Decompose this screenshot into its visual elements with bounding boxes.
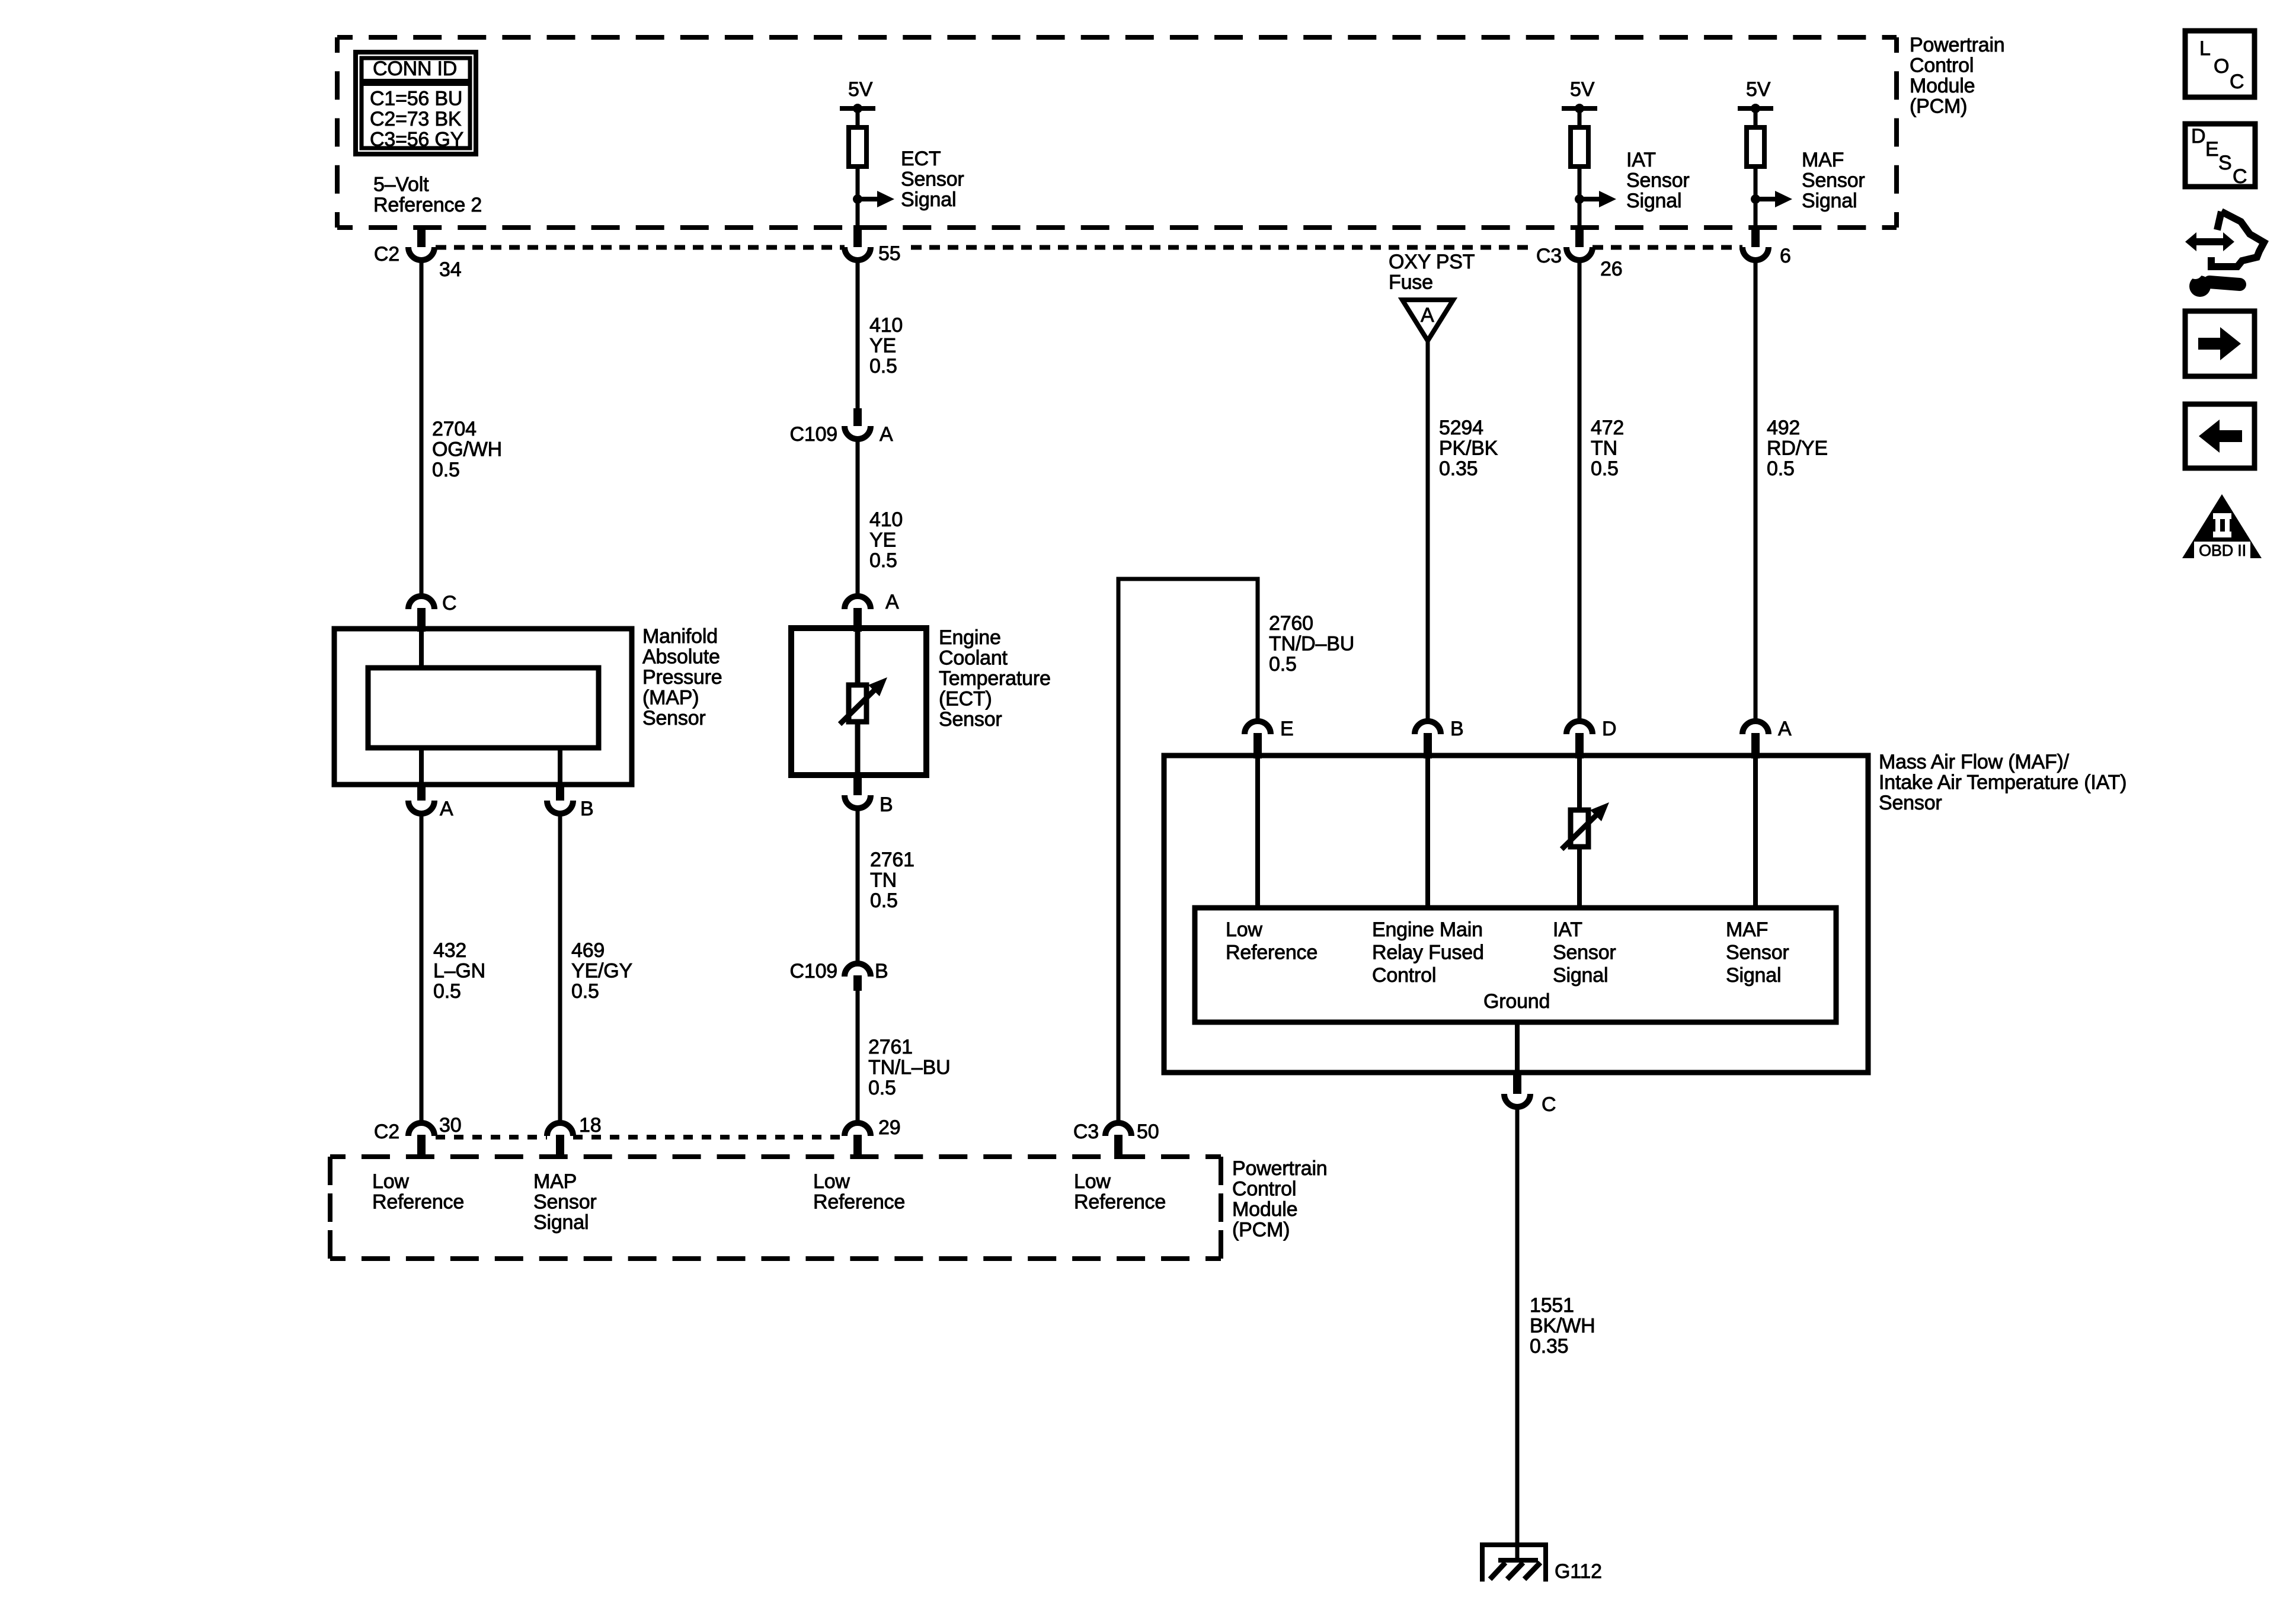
svg-text:E: E: [2205, 138, 2218, 161]
wire ground block to pin C: [1515, 1022, 1520, 1073]
connector A (MAP): [417, 782, 426, 801]
connector pin 29: [845, 1123, 871, 1136]
connector B (MAP): [556, 782, 564, 801]
icon OBD II warning triangle: [2182, 494, 2262, 558]
svg-text:CONN ID: CONN ID: [373, 57, 457, 80]
connector C3 pin 50: [1105, 1123, 1131, 1136]
connector D (MAF/IAT): [1566, 721, 1593, 734]
svg-text:C: C: [442, 592, 456, 614]
svg-text:C109: C109: [790, 423, 837, 446]
connector row dashed link (26 to 6): [1593, 245, 1742, 250]
svg-text:A: A: [880, 423, 893, 446]
MAF/IAT sensor box: [1164, 756, 1868, 1073]
svg-text:D: D: [1602, 718, 1616, 740]
wire 472 TN: [1578, 260, 1582, 723]
svg-text:OBD II: OBD II: [2199, 542, 2246, 559]
svg-text:O: O: [2214, 55, 2229, 78]
wire resistor to pin 26: [1578, 167, 1582, 229]
wire 5V to resistor (MAF): [1754, 108, 1758, 130]
connector pin 18: [547, 1123, 573, 1136]
ECT sensor box: [791, 628, 926, 775]
bottom connector dashed link (18 to 29): [573, 1135, 845, 1140]
bottom connector dashed link (30 to 18): [436, 1135, 547, 1140]
svg-text:5V: 5V: [1746, 78, 1771, 101]
wire pin B to ground block: [1425, 756, 1430, 908]
svg-text:C2: C2: [374, 243, 399, 265]
5V supply node (IAT): [1562, 106, 1597, 111]
MAP sensor box: [334, 629, 632, 785]
MAP sensor inner element: [368, 668, 599, 748]
svg-text:C: C: [2230, 71, 2244, 93]
resistor IAT pull-up: [1571, 127, 1588, 167]
wire low reference (C3-50 to pin E): [1117, 577, 1121, 1122]
wire 5V to resistor (IAT): [1578, 108, 1582, 130]
svg-text:A: A: [885, 591, 899, 613]
svg-text:A: A: [1421, 304, 1434, 327]
junction node (ECT signal): [853, 194, 862, 204]
svg-text:G112: G112: [1555, 1560, 1602, 1583]
connector C2 pin 30: [408, 1123, 434, 1136]
svg-text:34: 34: [439, 258, 461, 281]
svg-text:C1=56 BUC2=73 BKC3=56 GY: C1=56 BUC2=73 BKC3=56 GY: [370, 88, 463, 151]
connector row dashed link (C2 to 55): [436, 245, 845, 250]
PCM bottom module dashed box: [330, 1157, 1221, 1259]
svg-text:C2: C2: [374, 1121, 399, 1143]
svg-text:55: 55: [878, 242, 900, 265]
svg-text:C109: C109: [790, 960, 837, 982]
wire 410 YE lower: [856, 439, 860, 595]
svg-text:26: 26: [1600, 258, 1622, 280]
svg-text:50: 50: [1137, 1121, 1159, 1143]
svg-text:A: A: [440, 798, 453, 820]
wire element to pin B: [558, 748, 562, 785]
resistor MAF pull-up: [1747, 127, 1764, 167]
svg-text:B: B: [580, 798, 593, 820]
wire IAT thermistor to ground block: [1577, 847, 1582, 908]
svg-text:E: E: [1280, 718, 1293, 740]
IAT thermistor (variable resistor): [1571, 810, 1588, 847]
resistor ECT pull-up: [849, 127, 866, 167]
connector row dashed link (55 to C3): [911, 245, 1532, 250]
svg-text:5V: 5V: [848, 78, 873, 101]
connector pin 6: [1751, 225, 1760, 247]
wire C into element: [419, 629, 424, 668]
connector A (MAF/IAT): [1742, 721, 1769, 734]
wire 2704 OG/WH: [420, 260, 424, 595]
connector A (ECT sensor): [845, 596, 871, 609]
arrow ECT Sensor Signal: [858, 197, 878, 201]
svg-text:L: L: [2199, 37, 2211, 60]
wire pin D to IAT thermistor: [1577, 756, 1582, 812]
wire 2761 TN: [856, 808, 860, 965]
svg-text:C3: C3: [1073, 1121, 1099, 1143]
wire resistor to pin 55: [856, 167, 860, 229]
svg-text:Ground: Ground: [1483, 990, 1550, 1013]
wire thermistor to pin B: [855, 722, 861, 775]
connector 55: [853, 225, 862, 247]
connector E (MAF/IAT): [1245, 721, 1271, 734]
ECT thermistor (variable resistor): [849, 685, 866, 722]
junction node (IAT signal): [1575, 194, 1584, 204]
wire 5294 PK/BK: [1426, 340, 1430, 723]
svg-text:C: C: [1542, 1093, 1556, 1116]
connector C3 pin 26: [1575, 225, 1584, 247]
wire element to pin A: [419, 748, 424, 785]
CONN ID table: [356, 52, 476, 154]
5V supply node (ECT): [840, 106, 875, 111]
wire 5V to resistor (ECT): [856, 108, 860, 130]
wire 410 YE upper: [856, 260, 860, 409]
ground G112 symbol: [1480, 1542, 1548, 1547]
svg-text:6: 6: [1780, 245, 1791, 267]
svg-text:A: A: [1778, 718, 1792, 740]
svg-text:S: S: [2218, 152, 2231, 174]
svg-text:30: 30: [439, 1114, 461, 1137]
svg-text:C3: C3: [1536, 245, 1562, 267]
wire 2761 TN/L-BU: [856, 990, 860, 1124]
wire 492 RD/YE: [1754, 260, 1758, 723]
wire 1551 BK/WH: [1515, 1107, 1520, 1560]
wire pin A to ground block: [1753, 756, 1758, 908]
svg-text:C: C: [2233, 165, 2247, 188]
fuse symbol (triangle A): [1402, 300, 1453, 341]
icon DESC: [2185, 124, 2255, 187]
wire into thermistor: [855, 628, 861, 687]
wire 469 YE/GY: [558, 814, 562, 1124]
icon LOC: [2185, 31, 2255, 97]
icon diagnostic (arrow, shape, wrench): [2211, 212, 2264, 267]
wire 432 L-GN: [420, 814, 424, 1124]
svg-text:B: B: [880, 793, 893, 816]
connector C (MAF/IAT ground): [1513, 1070, 1521, 1094]
svg-text:B: B: [1450, 718, 1463, 740]
icon arrow left: [2185, 404, 2255, 468]
MAF/IAT internal block: [1195, 908, 1836, 1022]
arrow MAF Sensor Signal: [1755, 197, 1776, 201]
wire pin E to ground block: [1255, 756, 1260, 908]
svg-text:5V: 5V: [1570, 78, 1595, 101]
connector C109 B: [845, 964, 871, 977]
5V supply node (MAF): [1738, 106, 1773, 111]
wire resistor to pin 6: [1754, 167, 1758, 229]
connector C (MAP sensor): [408, 596, 434, 609]
PCM top module dashed box: [337, 37, 1897, 228]
svg-text:D: D: [2191, 125, 2205, 148]
connector C2 pin 34: [417, 225, 426, 247]
connector B (MAF/IAT): [1415, 721, 1441, 734]
arrow IAT Sensor Signal: [1579, 197, 1600, 201]
svg-text:B: B: [875, 960, 888, 982]
connector B (ECT): [853, 773, 862, 795]
icon arrow right: [2185, 311, 2255, 376]
svg-text:18: 18: [579, 1114, 601, 1137]
svg-text:29: 29: [878, 1116, 900, 1139]
junction node (MAF signal): [1751, 194, 1760, 204]
connector C109 A: [853, 408, 862, 426]
